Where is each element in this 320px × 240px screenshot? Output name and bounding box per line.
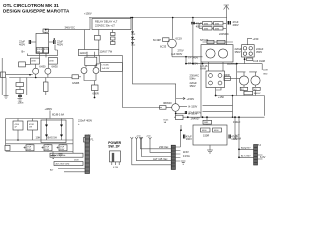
- svg-text:220VDC: 220VDC: [219, 32, 229, 36]
- svg-text:6C19: 6C19: [176, 37, 183, 41]
- wire vr lines: [203, 96, 233, 118]
- svg-text:+: +: [78, 123, 80, 126]
- resistor R17: [203, 27, 213, 30]
- resistor R6: [16, 90, 24, 94]
- resistor R23: [17, 119, 19, 122]
- wire +150V vertical feed: [89, 18, 91, 30]
- svg-text:6800: 6800: [214, 130, 219, 132]
- svg-text:470K: 470K: [49, 61, 54, 63]
- svg-text:B+: B+: [22, 49, 26, 53]
- svg-text:IRF840: IRF840: [163, 101, 172, 105]
- svg-text:350V: 350V: [190, 84, 196, 88]
- node arrows T1: [139, 137, 152, 139]
- label box L2: [50, 153, 83, 157]
- resistor R22: [213, 128, 222, 132]
- node arrow top: [224, 5, 229, 10]
- resistor R1: [37, 48, 43, 53]
- transformer T1 core: [171, 145, 175, 169]
- svg-text:RUM: RUM: [235, 137, 241, 141]
- wire stage2 feed: [84, 30, 99, 50]
- wire bus left output: [200, 62, 202, 117]
- svg-text:470K: 470K: [31, 61, 36, 63]
- box U3 ccs: [100, 63, 122, 72]
- svg-text:12AU7 7W: 12AU7 7W: [100, 50, 113, 54]
- wire mosfet source: [175, 111, 177, 117]
- wire stage2 grid bus: [26, 78, 28, 96]
- wire output bus: [186, 57, 262, 64]
- capacitor C5 47uF: [192, 18, 194, 22]
- box U1 stage1: [36, 33, 49, 53]
- wire left stage rail: [46, 29, 90, 31]
- svg-text:+150: +150: [253, 37, 259, 41]
- svg-text:LT 1085: LT 1085: [102, 64, 110, 66]
- resistor R20 6800: [160, 106, 167, 110]
- svg-text:6H30: 6H30: [52, 65, 59, 69]
- diode D1: [131, 31, 134, 44]
- resistor R21: [201, 128, 211, 132]
- svg-text:RELAY DELAY +LT: RELAY DELAY +LT: [95, 20, 118, 24]
- svg-text:6800: 6800: [202, 130, 207, 132]
- svg-text:270V: 270V: [178, 49, 184, 53]
- bridge BR2: [206, 71, 225, 88]
- wire cap bus: [6, 119, 73, 154]
- resistor NTC20: [203, 41, 234, 43]
- ground PS2: [59, 154, 63, 157]
- tube V4: [206, 49, 215, 58]
- wire reg gnd: [209, 145, 211, 150]
- svg-text:uF: uF: [15, 127, 18, 129]
- resistor R19 100R: [224, 77, 231, 81]
- choke L1 labels: [36, 136, 57, 140]
- box cath V7: [253, 87, 260, 90]
- wire T2 feed: [238, 117, 240, 157]
- svg-text:OTL CIRCLOTRON MK 31: OTL CIRCLOTRON MK 31: [3, 3, 59, 8]
- wire input: [6, 73, 33, 75]
- resistor R25: [217, 40, 225, 43]
- tube V6: [239, 76, 248, 85]
- capacitor C7: [185, 111, 186, 114]
- supply rail PS: [6, 118, 73, 120]
- wire driver cathode: [171, 48, 173, 57]
- capacitor C10 text: [78, 119, 92, 126]
- wire tube stubs: [237, 72, 257, 76]
- capacitor C1: [29, 40, 30, 44]
- wire ccs feed: [96, 55, 99, 64]
- resistor R9 grid2: [48, 58, 57, 65]
- svg-text:ALT 230V: ALT 230V: [241, 155, 251, 158]
- wire cathodes join: [84, 74, 96, 86]
- resistor R15: [203, 22, 213, 25]
- svg-text:150uF: 150uF: [233, 120, 241, 124]
- svg-text:T.2: T.2: [258, 143, 262, 147]
- svg-text:50Hz: 50Hz: [190, 77, 197, 81]
- capacitor C6: [228, 21, 230, 25]
- wire gnd bus: [6, 152, 73, 156]
- wire right drop: [225, 7, 227, 45]
- capacitor C12: [26, 145, 34, 151]
- wire output right end: [261, 64, 263, 70]
- svg-text:R7K5: R7K5: [44, 49, 50, 51]
- triode V1a: [33, 68, 39, 74]
- resistor R5: [16, 83, 24, 87]
- label box L3: [54, 162, 83, 166]
- wire lower loop: [216, 96, 265, 116]
- wire bridge1 top feed: [247, 58, 253, 61]
- capacitor C4 100n: [18, 95, 22, 96]
- wire bridge2 bottom: [216, 88, 221, 96]
- ground C4: [18, 99, 23, 102]
- svg-text:1uF 63V: 1uF 63V: [102, 68, 110, 70]
- ground input: [4, 96, 9, 99]
- svg-text:1uF 600V: 1uF 600V: [171, 52, 183, 56]
- svg-text:100R: 100R: [263, 70, 268, 72]
- box U2a stage2: [78, 50, 99, 56]
- triode V3 driver: [168, 39, 177, 48]
- svg-text:340V DC: 340V DC: [65, 26, 76, 30]
- svg-text:150R: 150R: [203, 134, 209, 138]
- wire choke bus: [6, 119, 73, 146]
- wire input shield: [1, 58, 3, 95]
- wire strip out: [58, 169, 85, 172]
- svg-text:7W: 7W: [37, 51, 40, 53]
- svg-text:+150V: +150V: [84, 12, 92, 16]
- svg-text:1W: 1W: [29, 127, 32, 129]
- wire TP340: [172, 56, 203, 58]
- resistor R13 680R: [92, 85, 99, 91]
- svg-text:450V: 450V: [27, 149, 32, 151]
- svg-text:400V: 400V: [233, 23, 239, 27]
- relay contacts: [111, 33, 116, 36]
- wire tubes to bridge2: [209, 62, 223, 71]
- svg-text:10H: 10H: [36, 136, 41, 140]
- svg-text:6C19P: 6C19P: [153, 38, 161, 42]
- triode V2b: [93, 68, 99, 74]
- wire plate drops: [36, 53, 49, 68]
- resistor R3 470K: [19, 62, 26, 67]
- svg-text:ALT 115 Vac: ALT 115 Vac: [153, 157, 168, 161]
- capacitor C14: [59, 145, 67, 151]
- wire +150 stub: [248, 38, 253, 44]
- title: [3, 3, 70, 14]
- ground PS: [51, 155, 57, 158]
- wire bridge1 stubs: [237, 57, 245, 95]
- wire +150V rail top: [89, 17, 227, 19]
- wire reg input: [174, 116, 264, 118]
- svg-text:220VDC 30s +LT: 220VDC 30s +LT: [95, 23, 115, 27]
- wire driver loop: [133, 18, 176, 104]
- svg-text:400V: 400V: [19, 42, 25, 46]
- box U2b: [85, 57, 97, 65]
- svg-text:OHM: OHM: [200, 67, 206, 71]
- svg-text:400V: 400V: [57, 42, 63, 46]
- relay K1: [92, 19, 131, 30]
- connector J1 input: [1, 72, 6, 78]
- svg-text:0.15A: 0.15A: [183, 154, 190, 158]
- resistor R2: [43, 48, 48, 53]
- node +150V label: [84, 12, 92, 16]
- tube V5: [218, 49, 227, 58]
- svg-text:0-16 OHM: 0-16 OHM: [253, 59, 265, 63]
- triode V1b: [45, 68, 51, 74]
- svg-text:ALT 230V 50Hz: ALT 230V 50Hz: [56, 163, 70, 166]
- svg-text:+150V: +150V: [187, 97, 195, 101]
- bridge BR3: [41, 120, 66, 143]
- wire T2 primary: [239, 149, 254, 157]
- svg-text:6,3V: 6,3V: [260, 155, 266, 159]
- svg-text:ALT: ALT: [50, 169, 54, 172]
- svg-text:1N4007: 1N4007: [191, 116, 201, 120]
- svg-text:+150: +150: [146, 136, 151, 138]
- svg-text:+380V: +380V: [45, 107, 53, 111]
- capacitor C13: [44, 145, 52, 151]
- bridge BR1: [242, 45, 255, 57]
- resistor R8 grid1: [31, 58, 40, 64]
- svg-text:100n: 100n: [18, 101, 24, 105]
- svg-text:NO: NO: [253, 89, 256, 91]
- capacitor C8: [184, 135, 185, 139]
- svg-text:6H30: 6H30: [39, 65, 46, 69]
- resistor R7 tail: [45, 78, 47, 83]
- ground T1: [181, 161, 186, 164]
- svg-text:GND: GND: [263, 74, 268, 76]
- svg-text:350V: 350V: [235, 50, 241, 54]
- svg-text:6C33: 6C33: [160, 45, 167, 49]
- mosfet Q1 IRF840: [172, 104, 180, 112]
- connector strip X1: [85, 135, 90, 174]
- wire T2 secondary: [258, 155, 263, 159]
- zener box: [203, 120, 212, 124]
- wire T1 secondary: [175, 125, 181, 161]
- resistor R26 on bus: [244, 91, 253, 94]
- capacitor C2: [54, 40, 55, 44]
- svg-text:0 230: 0 230: [113, 167, 119, 169]
- wire T1 feeds: [132, 139, 152, 165]
- svg-text:1N4007: 1N4007: [254, 93, 262, 95]
- box output tubes: [201, 45, 233, 62]
- svg-text:220uF 400V: 220uF 400V: [78, 119, 92, 123]
- svg-text:450V: 450V: [45, 149, 50, 151]
- resistor R14: [163, 38, 170, 42]
- wire coupling: [27, 45, 57, 56]
- wire input gnd: [5, 78, 7, 96]
- node 340V label: [65, 26, 76, 30]
- regulator box U4: [193, 125, 227, 145]
- resistor R12 100K: [72, 75, 79, 79]
- capacitor C9: [229, 135, 230, 139]
- svg-text:22uF 350V: 22uF 350V: [189, 110, 202, 114]
- svg-text:BAS 5H: BAS 5H: [48, 136, 57, 140]
- switch S1: [108, 141, 121, 148]
- svg-text:SW. 2P: SW. 2P: [108, 145, 120, 149]
- node B+: [22, 49, 26, 53]
- svg-text:160V: 160V: [186, 137, 192, 141]
- svg-text:350V: 350V: [256, 50, 262, 54]
- box cath V6: [240, 87, 247, 90]
- wire cathode bus: [9, 74, 72, 77]
- wire +150V out arrow: [176, 97, 185, 99]
- fuse F1: [84, 138, 90, 143]
- wire reg right: [234, 117, 236, 140]
- resistor R10: [43, 29, 49, 32]
- svg-text:115V: 115V: [183, 150, 189, 154]
- svg-text:ALT 230V 50Hz: ALT 230V 50Hz: [52, 154, 66, 157]
- tube V7: [251, 76, 260, 85]
- resistor R24: [28, 121, 38, 130]
- ground reg: [207, 150, 213, 153]
- svg-text:680R: 680R: [93, 92, 99, 96]
- svg-text:230V: 230V: [74, 160, 79, 162]
- svg-text:F1: F1: [91, 138, 95, 142]
- wire gate branch: [99, 55, 162, 107]
- relay contact K1b: [95, 35, 101, 40]
- wire driver plate feed: [172, 18, 174, 39]
- svg-text:100R: 100R: [224, 73, 230, 77]
- diode D5 box: [176, 115, 184, 119]
- wire T1 primary: [141, 139, 172, 165]
- resistor R16: [214, 22, 224, 25]
- svg-text:6DJ8 0.6A: 6DJ8 0.6A: [52, 113, 64, 117]
- transformer T2 core: [254, 145, 258, 166]
- svg-text:450V: 450V: [60, 149, 65, 151]
- svg-text:Vr 150V: Vr 150V: [188, 104, 198, 108]
- svg-text:DESIGN GIUSEPPE MAROTTA: DESIGN GIUSEPPE MAROTTA: [3, 9, 70, 14]
- svg-text:230 Vac: 230 Vac: [159, 145, 169, 149]
- triode V2a: [81, 68, 87, 74]
- resistor R18: [214, 27, 224, 30]
- wire bridge2 link: [225, 78, 241, 80]
- svg-text:+150: +150: [218, 95, 224, 99]
- capacitor C11: [5, 145, 10, 150]
- svg-text:GNFB: GNFB: [72, 81, 79, 85]
